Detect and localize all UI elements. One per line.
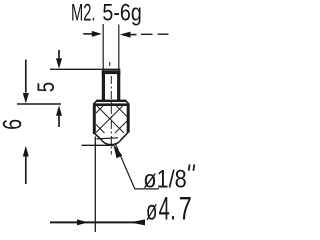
svg-text:7: 7 xyxy=(179,191,192,228)
svg-text:.: . xyxy=(170,191,176,227)
extension line left of thread xyxy=(102,24,104,71)
svg-text:ø1/8: ø1/8 xyxy=(143,165,187,193)
dimension 5 top extension line xyxy=(50,68,120,70)
inch marks xyxy=(189,164,195,170)
M2.5 dimension arrow right (points left) xyxy=(120,32,169,38)
M2.5 dimension arrow left (points right) xyxy=(83,31,102,37)
centerline dash above stud xyxy=(109,62,111,66)
dimension 6 bottom extension line (ball bottom) xyxy=(82,144,115,146)
body bottom chamfer right xyxy=(122,132,129,139)
label o1/8" xyxy=(143,164,194,193)
centerline through part xyxy=(110,76,112,155)
label o4.7 xyxy=(146,191,192,228)
svg-text:5-6g: 5-6g xyxy=(102,0,141,26)
body bottom chamfer left xyxy=(95,133,101,139)
threaded stud outline xyxy=(102,71,121,100)
extension line right of thread xyxy=(118,25,120,71)
bottom ring edge xyxy=(97,138,119,139)
body diameter extension line xyxy=(94,137,96,233)
ball arc xyxy=(101,139,122,145)
dimension 5 line with arrows xyxy=(56,50,62,127)
knurl cross-hatch xyxy=(96,106,128,133)
thread label M2.5-6g xyxy=(71,0,142,27)
shared extension line (5 bottom / 6 top) xyxy=(17,103,61,105)
dimension o4.7 line with arrows xyxy=(50,219,145,225)
svg-text:M2.: M2. xyxy=(71,0,95,26)
body top chamfer left xyxy=(94,101,97,104)
leader line to ball (o1/8") xyxy=(113,143,159,189)
svg-text:4: 4 xyxy=(159,191,170,227)
body top edge xyxy=(93,103,130,106)
svg-text:5: 5 xyxy=(31,82,59,92)
body left edge xyxy=(93,106,96,134)
svg-text:6: 6 xyxy=(0,119,27,130)
body top flat (collar) xyxy=(96,100,127,102)
body right edge xyxy=(127,106,130,133)
body top chamfer right xyxy=(126,101,129,104)
dimension 6 line with arrows xyxy=(23,60,29,184)
svg-text:ø: ø xyxy=(146,196,157,227)
